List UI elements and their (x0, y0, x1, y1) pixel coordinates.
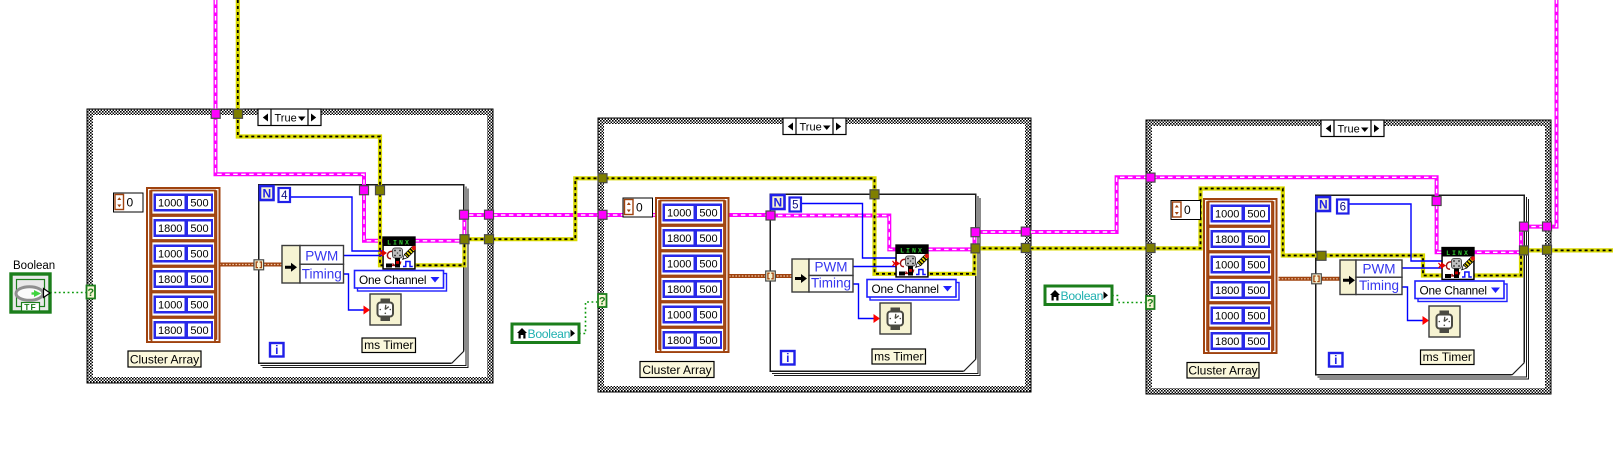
svg-text:Timing: Timing (1359, 278, 1399, 293)
svg-text:1000: 1000 (158, 300, 182, 312)
wire Timing 2 to ms timer (853, 284, 878, 319)
tunnel indexing [] loop 2 (766, 271, 776, 281)
wire cluster array 2 to unbundle (729, 274, 793, 278)
svg-text:500: 500 (699, 284, 717, 296)
svg-text:1800: 1800 (667, 284, 691, 296)
structure 2 cluster row 6: 1800,500 (661, 328, 725, 352)
structure 2 unbundle by name node (792, 259, 853, 292)
structure 2 cluster row 2: 1800,500 (661, 226, 725, 250)
tunnel pink structure 1 top (211, 109, 220, 118)
structure 2 red input mark (893, 260, 901, 267)
wire N count 5 to LINX (801, 204, 896, 259)
svg-text:500: 500 (699, 259, 717, 271)
tunnel olive structure 1 top (234, 109, 243, 118)
svg-text:1800: 1800 (158, 274, 182, 286)
structure 3 for loop border (1316, 195, 1529, 379)
structure 3 case selector label "True" (1321, 120, 1384, 137)
structure 2 loop count terminal N (771, 195, 785, 210)
tunnel olive loop 1 right (460, 235, 469, 244)
tunnel olive structure 3 right (1543, 245, 1552, 254)
label ms Timer 3 (1421, 350, 1475, 365)
svg-text:N: N (773, 196, 782, 210)
svg-text:500: 500 (1247, 311, 1265, 323)
svg-text:One Channel: One Channel (1420, 284, 1487, 298)
wire N count 4 to LINX (290, 197, 383, 251)
structure 3 loop iteration terminal i (1329, 353, 1343, 367)
structure 1 red input mark (380, 250, 388, 257)
structure 1 cluster row 4: 1800,500 (152, 267, 216, 291)
svg-text:1000: 1000 (1215, 260, 1239, 272)
structure 2 case structure border (598, 118, 1031, 392)
svg-text:?: ? (599, 296, 606, 308)
svg-text:One Channel: One Channel (359, 273, 426, 287)
svg-text:6: 6 (1340, 202, 1346, 214)
svg-text:1000: 1000 (667, 310, 691, 322)
structure 2 cluster row 4: 1800,500 (661, 277, 725, 301)
wire cluster-array pink: structure 2 to structure 3 and top exit (770, 0, 1557, 252)
svg-text:1000: 1000 (667, 259, 691, 271)
red arrow into ms timer 1 (364, 306, 371, 315)
structure 1 cluster row 1: 1000,500 (152, 191, 216, 215)
svg-text:Boolean: Boolean (1061, 289, 1104, 303)
boolean 2 Boolean local variable (512, 324, 579, 343)
svg-text:1000: 1000 (158, 249, 182, 261)
svg-text:i: i (786, 351, 789, 365)
structure 1 loop iteration terminal i (270, 343, 284, 357)
red arrow into ms timer 2 (874, 314, 881, 323)
svg-text:Boolean: Boolean (13, 260, 55, 272)
wire cluster array 1 to unbundle (220, 263, 284, 267)
svg-text:Timing: Timing (302, 267, 342, 282)
wire boolean 3 to selector (1112, 296, 1145, 303)
structure 3 cluster row 4: 1800,500 (1209, 278, 1273, 302)
svg-text:N: N (262, 187, 271, 201)
structure 3 cluster row 6: 1800,500 (1209, 329, 1273, 353)
structure 1 cluster row 3: 1000,500 (152, 242, 216, 266)
structure 3 cluster row 3: 1000,500 (1209, 253, 1273, 277)
tunnel pink loop 1 top (360, 186, 369, 195)
wire Timing 1 to ms timer (344, 274, 369, 310)
tunnel pink structure 3 right (1543, 222, 1552, 231)
svg-text:500: 500 (190, 325, 208, 337)
structure 2 cluster row 1: 1000,500 (661, 201, 725, 225)
wire cluster array 3 to unbundle (1279, 277, 1342, 281)
structure 3 cluster row 2: 1800,500 (1209, 227, 1273, 251)
structure 3 cluster row 1: 1000,500 (1209, 202, 1273, 226)
svg-text:1800: 1800 (158, 223, 182, 235)
structure 1 loop count terminal N (260, 186, 274, 201)
structure 3 case selector terminal ? (1146, 296, 1155, 310)
tunnel indexing [] loop 3 (1312, 274, 1322, 284)
svg-text:1800: 1800 (158, 325, 182, 337)
structure 2 case selector terminal ? (598, 294, 607, 308)
svg-text:One Channel: One Channel (872, 282, 939, 296)
svg-text:1000: 1000 (1215, 311, 1239, 323)
tunnel pink loop 2 left (766, 211, 775, 220)
label ms Timer 2 (872, 349, 926, 364)
svg-text:500: 500 (699, 233, 717, 245)
svg-text:0: 0 (127, 196, 134, 210)
svg-text:500: 500 (1247, 260, 1265, 272)
structure 2 enum constant "One Channel" (867, 280, 959, 301)
svg-text:True: True (800, 122, 822, 134)
svg-text:500: 500 (190, 223, 208, 235)
tunnel olive loop 3 right (1520, 246, 1529, 255)
structure 2 cluster array index box (623, 198, 653, 217)
structure 2 wait ms clock icon (880, 303, 911, 334)
svg-text:Cluster Array: Cluster Array (1188, 364, 1257, 378)
svg-text:ms Timer: ms Timer (364, 338, 413, 352)
svg-text:0: 0 (636, 201, 643, 215)
tunnel olive loop 1 top (376, 186, 385, 195)
svg-text:4: 4 (281, 190, 288, 202)
structure 1 case selector terminal ? (87, 286, 96, 300)
label Cluster Array 2 (640, 362, 714, 378)
structure 3 cluster row 5: 1000,500 (1209, 304, 1273, 328)
tunnel pink loop 3 right (1520, 222, 1529, 231)
structure 2 case selector label "True" (783, 118, 846, 135)
tunnel olive loop 3 left (1317, 251, 1326, 260)
svg-text:1000: 1000 (667, 208, 691, 220)
tunnel olive structure 2 left (598, 174, 607, 183)
structure 2 cluster array shell (512, 197, 1507, 378)
svg-text:1000: 1000 (1215, 209, 1239, 221)
svg-text:N: N (1319, 198, 1328, 212)
svg-text:500: 500 (190, 274, 208, 286)
svg-text:i: i (275, 343, 278, 357)
svg-text:Boolean: Boolean (528, 327, 571, 341)
boolean control 1 Boolean push button control (11, 274, 50, 312)
structure 3 cluster array index box (1171, 201, 1201, 220)
structure 2 loop count constant 5 (790, 198, 802, 212)
wire PWM 2 to LINX (853, 266, 896, 268)
svg-text:LINX: LINX (387, 239, 411, 246)
svg-text:500: 500 (699, 335, 717, 347)
svg-text:?: ? (87, 287, 94, 299)
svg-text:1000: 1000 (158, 198, 182, 210)
boolean 3 Boolean local variable (1045, 286, 1112, 305)
tunnel pink structure 3 left (1146, 173, 1155, 182)
svg-text:PWM: PWM (1363, 261, 1396, 276)
structure 3 case structure border (1146, 120, 1551, 394)
svg-text:500: 500 (190, 300, 208, 312)
label Cluster Array 1 (128, 351, 201, 367)
structure 1 cluster array shell (11, 188, 1507, 378)
structure 1 cluster row 6: 1800,500 (152, 318, 216, 342)
structure 1 unbundle by name node (282, 246, 344, 284)
structure 3 enum constant "One Channel" (1415, 281, 1507, 302)
structure 2 loop iteration terminal i (781, 351, 795, 365)
structure 1 case structure border (87, 109, 493, 383)
svg-text:ms Timer: ms Timer (874, 350, 923, 364)
tunnel olive loop 2 top (870, 190, 879, 199)
svg-text:TF: TF (24, 302, 36, 312)
tunnel indexing [] loop 1 (254, 260, 264, 270)
structure 1 for loop border (259, 185, 469, 368)
svg-text:?: ? (1147, 298, 1154, 310)
svg-text:Timing: Timing (811, 276, 851, 291)
svg-text:500: 500 (1247, 285, 1265, 297)
wire boolean 1 to selector (50, 292, 86, 294)
structure 2 for loop border (770, 194, 980, 376)
wire cluster-array pink: top entry through structure 1 (216, 0, 771, 241)
structure 1 enum constant "One Channel" (355, 271, 447, 292)
structure 1 loop count constant 4 (279, 188, 291, 202)
svg-text:1800: 1800 (1215, 336, 1239, 348)
structure 1 wait ms clock icon (370, 294, 401, 325)
wire PWM 1 to LINX (344, 255, 384, 257)
svg-text:500: 500 (190, 198, 208, 210)
wire error cluster olive: full chain (238, 0, 1613, 276)
structure 1 cluster row 2: 1800,500 (152, 216, 216, 240)
svg-text:ms Timer: ms Timer (1423, 350, 1472, 364)
svg-text:1800: 1800 (667, 233, 691, 245)
svg-text:LINX: LINX (1446, 250, 1470, 257)
structure 3 loop count terminal N (1317, 197, 1331, 212)
svg-text:0: 0 (1184, 203, 1191, 217)
wire boolean 2 to selector (579, 302, 597, 334)
structure 1 cluster array index box (114, 193, 144, 212)
svg-text:Cluster Array: Cluster Array (130, 353, 199, 367)
structure 1 case selector label "True" (258, 109, 321, 126)
svg-text:5: 5 (792, 200, 798, 212)
structure 3 cluster array shell (1045, 199, 1507, 378)
svg-text:500: 500 (699, 208, 717, 220)
svg-text:PWM: PWM (305, 248, 338, 263)
structure 3 unbundle by name node (1340, 260, 1402, 295)
tunnel pink structure 2 right (1021, 227, 1030, 236)
svg-text:True: True (1338, 124, 1360, 136)
svg-text:500: 500 (1247, 234, 1265, 246)
svg-text:True: True (275, 113, 297, 125)
tunnel pink loop 1 right (460, 210, 469, 219)
tunnel olive loop 2 right (971, 244, 980, 253)
tunnel olive structure 3 left (1146, 244, 1155, 253)
structure 3 loop count constant 6 (1337, 200, 1349, 214)
label Cluster Array 3 (1187, 363, 1259, 379)
tunnel pink loop 2 right (971, 228, 980, 237)
red arrow into ms timer 3 (1423, 316, 1430, 325)
tunnel pink loop 3 top (1432, 197, 1441, 206)
svg-text:Cluster Array: Cluster Array (642, 363, 711, 377)
tunnel olive structure 1 right (485, 235, 494, 244)
label ms Timer 1 (362, 338, 416, 353)
svg-text:PWM: PWM (815, 260, 848, 275)
wire PWM 3 to LINX (1402, 267, 1442, 269)
svg-text:i: i (1334, 353, 1337, 367)
structure 2 cluster row 5: 1000,500 (661, 303, 725, 327)
svg-text:500: 500 (190, 249, 208, 261)
svg-text:1800: 1800 (1215, 234, 1239, 246)
svg-text:LINX: LINX (900, 247, 924, 254)
wire Timing 3 to ms timer (1402, 287, 1427, 321)
svg-text:500: 500 (699, 310, 717, 322)
svg-text:500: 500 (1247, 209, 1265, 221)
structure 3 wait ms clock icon (1429, 306, 1460, 337)
structure 2 cluster row 3: 1000,500 (661, 252, 725, 276)
structure 1 cluster row 5: 1000,500 (152, 293, 216, 317)
wire N count 6 to LINX (1349, 204, 1443, 261)
tunnel pink structure 2 left (598, 210, 607, 219)
tunnel olive structure 2 right (1021, 244, 1030, 253)
tunnel pink structure 1 right (485, 210, 494, 219)
structure 3 red input mark (1439, 262, 1447, 269)
svg-text:1800: 1800 (1215, 285, 1239, 297)
svg-text:1800: 1800 (667, 335, 691, 347)
svg-text:500: 500 (1247, 336, 1265, 348)
